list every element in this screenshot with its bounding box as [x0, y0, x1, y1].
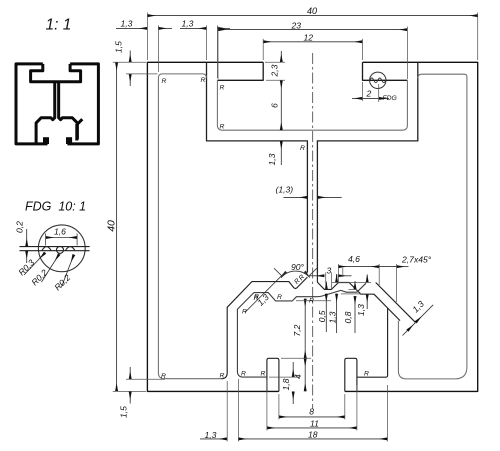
dim 40 left vertical [116, 62, 118, 391]
svg-text:4,6: 4,6 [348, 254, 360, 264]
svg-text:8: 8 [309, 407, 314, 417]
leader 1,3 chamfer [416, 305, 434, 323]
dim 2,7x45 [379, 266, 396, 268]
dim 1,3 floor wall [280, 141, 282, 165]
svg-text:R: R [300, 145, 305, 152]
svg-text:1,3: 1,3 [205, 430, 217, 440]
svg-text:R: R [220, 85, 225, 92]
box outer walls [207, 62, 418, 272]
dim 4,6 [338, 266, 379, 268]
FDG circle marker on ceiling [370, 72, 386, 88]
svg-text:R0,2: R0,2 [52, 272, 72, 292]
svg-text:12: 12 [304, 32, 314, 42]
svg-text:1,3: 1,3 [328, 311, 338, 323]
svg-text:R: R [277, 294, 282, 301]
svg-text:18: 18 [308, 429, 318, 439]
svg-text:1,3: 1,3 [410, 299, 426, 315]
svg-text:R: R [162, 78, 167, 85]
svg-text:R: R [242, 309, 247, 316]
dim 4 [304, 358, 306, 391]
leader 1,3 left shoulder [245, 272, 286, 313]
leader R0,2 middle [42, 254, 60, 282]
svg-text:6: 6 [270, 103, 280, 108]
cavity 23x6 [217, 80, 407, 130]
top slot opening lips [217, 62, 407, 80]
svg-text:R: R [309, 297, 314, 304]
profile thumbnail outline [16, 64, 98, 144]
dim 1,5 bottom left [129, 367, 131, 379]
leader R0,3 [24, 253, 45, 275]
svg-text:1,6: 1,6 [54, 227, 66, 237]
svg-text:1,3: 1,3 [182, 19, 194, 29]
dim 1,5 top left [129, 51, 131, 63]
dim 12 [263, 41, 362, 43]
dim 11 [267, 427, 357, 429]
svg-text:40: 40 [105, 220, 117, 232]
svg-text:1,3: 1,3 [267, 153, 277, 165]
svg-text:3: 3 [327, 266, 332, 276]
dim 18 [238, 438, 387, 440]
svg-text:1,5: 1,5 [114, 41, 124, 53]
svg-text:FDG 10: 1: FDG 10: 1 [25, 200, 86, 214]
extension lines [113, 13, 478, 442]
svg-text:7,2: 7,2 [292, 324, 302, 336]
svg-text:2,3: 2,3 [270, 64, 280, 77]
dim 23 [218, 29, 407, 31]
svg-text:R: R [254, 295, 259, 302]
dim 90deg arc [281, 271, 310, 278]
svg-text:1,3: 1,3 [356, 304, 366, 316]
svg-text:R: R [364, 371, 369, 378]
svg-text:1,5: 1,5 [119, 406, 129, 418]
svg-text:90°: 90° [291, 262, 305, 272]
slot chamber inner walls and stepped ceiling [237, 283, 366, 377]
svg-text:0,5: 0,5 [317, 310, 327, 322]
svg-text:R: R [161, 373, 166, 380]
svg-text:0,2: 0,2 [15, 221, 25, 233]
dim 0,2 [26, 229, 28, 263]
right V-groove and steps [317, 272, 400, 321]
dim (1,3) web [283, 196, 307, 198]
chamfer 2.7x45 outer line [376, 283, 416, 323]
dim 3 [310, 275, 325, 277]
right void [398, 74, 467, 379]
R fillet labels [161, 77, 369, 380]
svg-text:40: 40 [307, 6, 317, 16]
centerline [312, 53, 314, 409]
svg-text:0,8: 0,8 [343, 311, 353, 323]
dim 7,2 [304, 299, 306, 359]
dim 1,6 [46, 234, 78, 246]
surface lines [20, 246, 90, 253]
svg-text:11: 11 [310, 418, 319, 428]
dim 2 fdg [352, 97, 363, 99]
svg-text:1,3: 1,3 [121, 19, 133, 29]
svg-text:4: 4 [293, 374, 303, 379]
svg-text:1: 1: 1: 1 [46, 17, 72, 34]
svg-text:23: 23 [291, 21, 302, 31]
dim 40 top [147, 15, 477, 17]
dim 1,3 left [116, 27, 147, 29]
dim 1,8 [292, 362, 294, 377]
dim 1,3 second [180, 27, 207, 29]
dims 0,5 1,3 0,8 1,3 small columns [325, 282, 327, 290]
svg-text:1,8: 1,8 [281, 378, 291, 390]
svg-text:R: R [241, 371, 246, 378]
left void [158, 74, 221, 379]
detail circle [38, 225, 85, 272]
dim 2,3 [280, 51, 282, 62]
svg-text:R: R [261, 371, 266, 378]
svg-text:2,7x45°: 2,7x45° [401, 254, 432, 264]
left chamber right wall and 45deg shoulder [221, 272, 415, 379]
svg-text:R: R [201, 77, 206, 84]
svg-text:R0,3: R0,3 [16, 257, 36, 277]
svg-text:2: 2 [366, 89, 372, 99]
dim 8 [279, 416, 345, 418]
svg-text:R: R [220, 124, 225, 131]
bottom slot feet [267, 309, 388, 392]
svg-text:FDG: FDG [383, 95, 397, 102]
dim 1,3 bottom left [200, 438, 227, 440]
svg-text:R: R [220, 373, 225, 380]
dim 6 [280, 80, 282, 130]
leader R0,2 right [62, 255, 74, 288]
svg-text:(1,3): (1,3) [276, 185, 294, 195]
outer contour [147, 62, 477, 391]
svg-text:R0,2: R0,2 [29, 267, 49, 287]
